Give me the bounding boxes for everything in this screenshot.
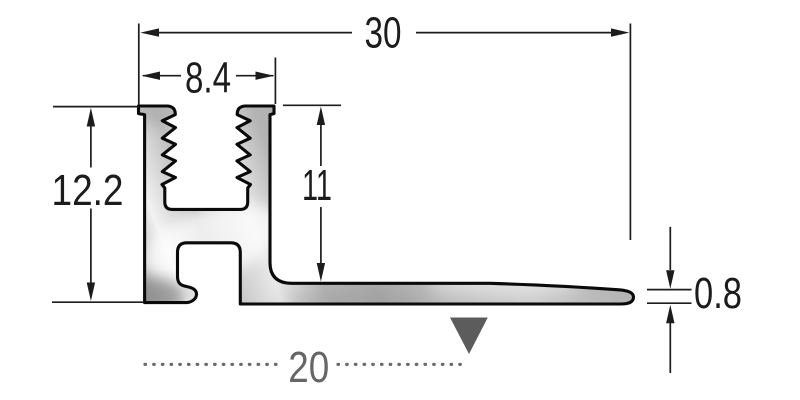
dimension 0.8: dimension line upper (669, 227, 671, 270)
dimension 8.4: dimension line (143, 75, 181, 77)
dimension 11: extension line top (283, 104, 341, 106)
dimension 30: arrow left (140, 28, 159, 36)
dimension 20: dotted line left (145, 363, 282, 366)
dimension 12.2: arrow down (87, 283, 95, 302)
dimension 12.2: extension line bottom (52, 301, 143, 303)
svg-text:30: 30 (365, 9, 402, 58)
dimension 30: extension line left (138, 24, 140, 106)
dimension 8.4: arrow right (256, 72, 274, 80)
svg-text:8.4: 8.4 (185, 53, 231, 102)
dimension 12.2: dimension line (90, 124, 92, 168)
metal sheen highlights clipped to profile (118, 100, 583, 313)
dimension 0.8: arrow up (666, 305, 674, 324)
dimension 8.4: arrow left (142, 72, 161, 80)
svg-text:11: 11 (302, 161, 332, 210)
dimension 0.8: dimension line lower (669, 323, 671, 373)
dimension 30: arrow right (611, 28, 629, 36)
dimension 12.2: extension line top (53, 106, 139, 108)
svg-text:0.8: 0.8 (694, 269, 742, 318)
dimension 11: arrow up (317, 107, 325, 126)
profile outline (139, 106, 634, 304)
profile body (aluminium extrusion cross-section): fill layer (139, 106, 634, 304)
dimension 12.2: arrow up (87, 108, 95, 127)
svg-text:12.2: 12.2 (52, 166, 124, 215)
dimension 8.4: extension line right (274, 58, 276, 105)
marker triangle (450, 318, 488, 355)
dimension 11: dimension line (320, 124, 322, 166)
dimension 0.8: arrow down (666, 270, 674, 289)
dimension 11: arrow down (317, 263, 325, 282)
dimension 0.8: tick top (647, 289, 692, 291)
dimension 20: dotted line right (338, 363, 468, 366)
svg-text:20: 20 (288, 343, 329, 392)
dimension 0.8: tick bottom (647, 302, 692, 304)
dimension 30: dimension line (149, 32, 352, 34)
dimension 30: extension line right (629, 24, 631, 241)
